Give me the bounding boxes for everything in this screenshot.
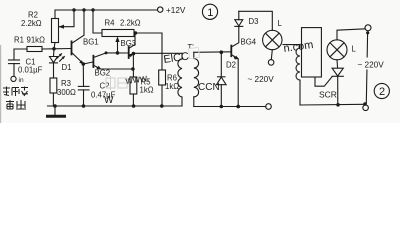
svg-text:SCR: SCR bbox=[319, 90, 337, 100]
svg-text:CCN: CCN bbox=[198, 82, 220, 93]
transistor BG2 bbox=[83, 62, 93, 64]
svg-text:R3: R3 bbox=[61, 79, 71, 88]
label 输出 bbox=[6, 100, 26, 109]
svg-text:300Ω: 300Ω bbox=[57, 88, 76, 97]
wire R4 left feed from rail bbox=[93, 10, 102, 33]
lamp L (block 1) bbox=[263, 30, 282, 49]
svg-text:R4: R4 bbox=[105, 19, 116, 28]
wire R2 wiper bbox=[60, 10, 75, 27]
junction dot R4 wiper / base wire bbox=[116, 51, 120, 55]
svg-text:1kΩ: 1kΩ bbox=[165, 82, 179, 91]
wire R1 left to C1 bbox=[14, 49, 27, 60]
junction dot BG4 emitter rail bbox=[236, 105, 240, 109]
wire bottom ground rail (left block) bbox=[48, 105, 183, 107]
junction dot R6 bottom rail bbox=[160, 104, 164, 108]
transistor BG1 bbox=[54, 48, 71, 50]
wire lamp L1 bottom to terminal bbox=[271, 50, 272, 60]
arrow R4 wiper bbox=[117, 40, 119, 53]
svg-text:L: L bbox=[352, 45, 357, 54]
terminal circle block2 bottom bbox=[363, 105, 369, 111]
gate transformer winding (block 2) bbox=[296, 48, 300, 80]
wire R4 right to R6 feed bbox=[134, 33, 162, 70]
svg-text:2.2kΩ: 2.2kΩ bbox=[21, 19, 42, 28]
wire top +12V rail bbox=[56, 9, 158, 11]
terminal input circle bbox=[11, 76, 16, 81]
wire C1 bottom stub bbox=[13, 64, 15, 77]
wire BG2 collector to BG3 base bbox=[106, 52, 128, 54]
wire D3 top to lamp L1 bbox=[239, 11, 272, 30]
transformer T secondary winding bbox=[193, 52, 195, 58]
diode D3 bbox=[238, 20, 240, 27]
capacitor C2 bbox=[82, 64, 84, 86]
svg-text:1: 1 bbox=[207, 7, 213, 19]
wire SCR gate bbox=[315, 77, 332, 87]
terminal circle middle bottom bbox=[266, 104, 272, 110]
junction dot SCR cathode rail bbox=[336, 103, 340, 107]
junction dot BG1 emitter node bbox=[82, 62, 86, 66]
transistor BG3 bbox=[128, 47, 130, 58]
wire emitter to transformer primary bbox=[133, 52, 182, 54]
wire lamp2 top to terminal bbox=[337, 29, 365, 40]
photodiode D1 bbox=[53, 49, 56, 57]
resistor R5 bbox=[132, 54, 134, 77]
thyristor SCR bbox=[336, 60, 339, 68]
junction dot C2 bottom rail bbox=[82, 104, 86, 108]
transistor BG4 bbox=[230, 46, 232, 57]
junction dot BG3 emitter node bbox=[132, 52, 136, 56]
junction dot R4 feed / rail bbox=[91, 8, 94, 11]
terminal circle block1 top bbox=[268, 60, 274, 66]
svg-text:0.01µF: 0.01µF bbox=[18, 66, 43, 75]
svg-text:in: in bbox=[19, 77, 24, 84]
svg-text:+12V: +12V bbox=[166, 6, 186, 15]
svg-text:2: 2 bbox=[379, 86, 385, 98]
wire R2 top stub bbox=[54, 10, 56, 19]
label ~220V (block 2) with gap background bbox=[357, 58, 388, 70]
arrow D1 light ray 1 bbox=[57, 54, 62, 59]
arrow R2 wiper head bbox=[59, 25, 65, 29]
wire R3 bottom bbox=[52, 93, 54, 106]
capacitor C1 plates bbox=[9, 59, 20, 61]
svg-text:D2: D2 bbox=[226, 61, 236, 70]
lamp L (block 2) bbox=[327, 40, 347, 60]
wire block2 bottom rail bbox=[300, 103, 364, 106]
svg-text:91kΩ: 91kΩ bbox=[27, 36, 46, 45]
svg-text:~ 220V: ~ 220V bbox=[248, 75, 275, 84]
junction dot wiper/rail bbox=[72, 8, 75, 11]
transformer T primary winding bbox=[181, 53, 183, 59]
resistor R4 (preset pot) body bbox=[102, 30, 134, 37]
diode D2 bbox=[220, 50, 224, 54]
junction dot below top terminal bbox=[366, 31, 369, 34]
block 2: feed wire to gate transformer bbox=[283, 45, 300, 48]
junction dot R4 right / BG3 collector bbox=[134, 31, 137, 34]
resistor R6 bbox=[159, 70, 166, 85]
resistor R1 body bbox=[27, 47, 42, 52]
svg-text:C2: C2 bbox=[100, 82, 110, 91]
svg-text:BG4: BG4 bbox=[241, 37, 257, 46]
arrow D1 light ray 2 bbox=[60, 57, 65, 62]
svg-text:L: L bbox=[278, 19, 283, 28]
wire R1 right to node A bbox=[42, 48, 54, 50]
wire middle bottom rail bbox=[194, 106, 266, 108]
svg-text:~ 220V: ~ 220V bbox=[358, 61, 385, 70]
junction dot BG2 collector bbox=[105, 51, 108, 54]
core box (block 2) bbox=[302, 28, 322, 77]
junction dot R3 / ground bbox=[53, 104, 57, 108]
svg-text:D3: D3 bbox=[249, 17, 259, 26]
watermark fragments bbox=[104, 39, 314, 106]
terminal +12V circle bbox=[158, 7, 163, 12]
svg-text:BG2: BG2 bbox=[95, 69, 111, 78]
junction dot R5 bottom rail bbox=[132, 104, 136, 108]
svg-text:D1: D1 bbox=[62, 63, 72, 72]
label 接视放 (connect to video amp) bbox=[3, 87, 28, 97]
circled 1 marker bbox=[202, 4, 217, 19]
ground symbol bbox=[54, 106, 56, 116]
svg-text:R1: R1 bbox=[14, 36, 24, 45]
resistor R2 (preset pot) body bbox=[52, 19, 59, 43]
terminal circle block2 top bbox=[365, 25, 371, 31]
node A junction dot bbox=[52, 47, 56, 51]
wire secondary top to BG4 base bbox=[194, 51, 231, 54]
wire mains vertical (block 2) bbox=[366, 34, 367, 105]
junction dot BG2 emitter / R5 bbox=[131, 67, 135, 71]
wire R2 bottom stub to node A bbox=[54, 43, 55, 49]
svg-text:BG3: BG3 bbox=[121, 39, 137, 48]
svg-text:2.2kΩ: 2.2kΩ bbox=[120, 19, 141, 28]
junction dot BG1 collector / rail bbox=[82, 8, 85, 11]
svg-text:BG1: BG1 bbox=[83, 37, 99, 46]
svg-text:W: W bbox=[104, 95, 114, 106]
resistor R3 body bbox=[50, 78, 57, 93]
circled 2 marker bbox=[374, 83, 389, 98]
svg-text:1kΩ: 1kΩ bbox=[140, 86, 154, 95]
